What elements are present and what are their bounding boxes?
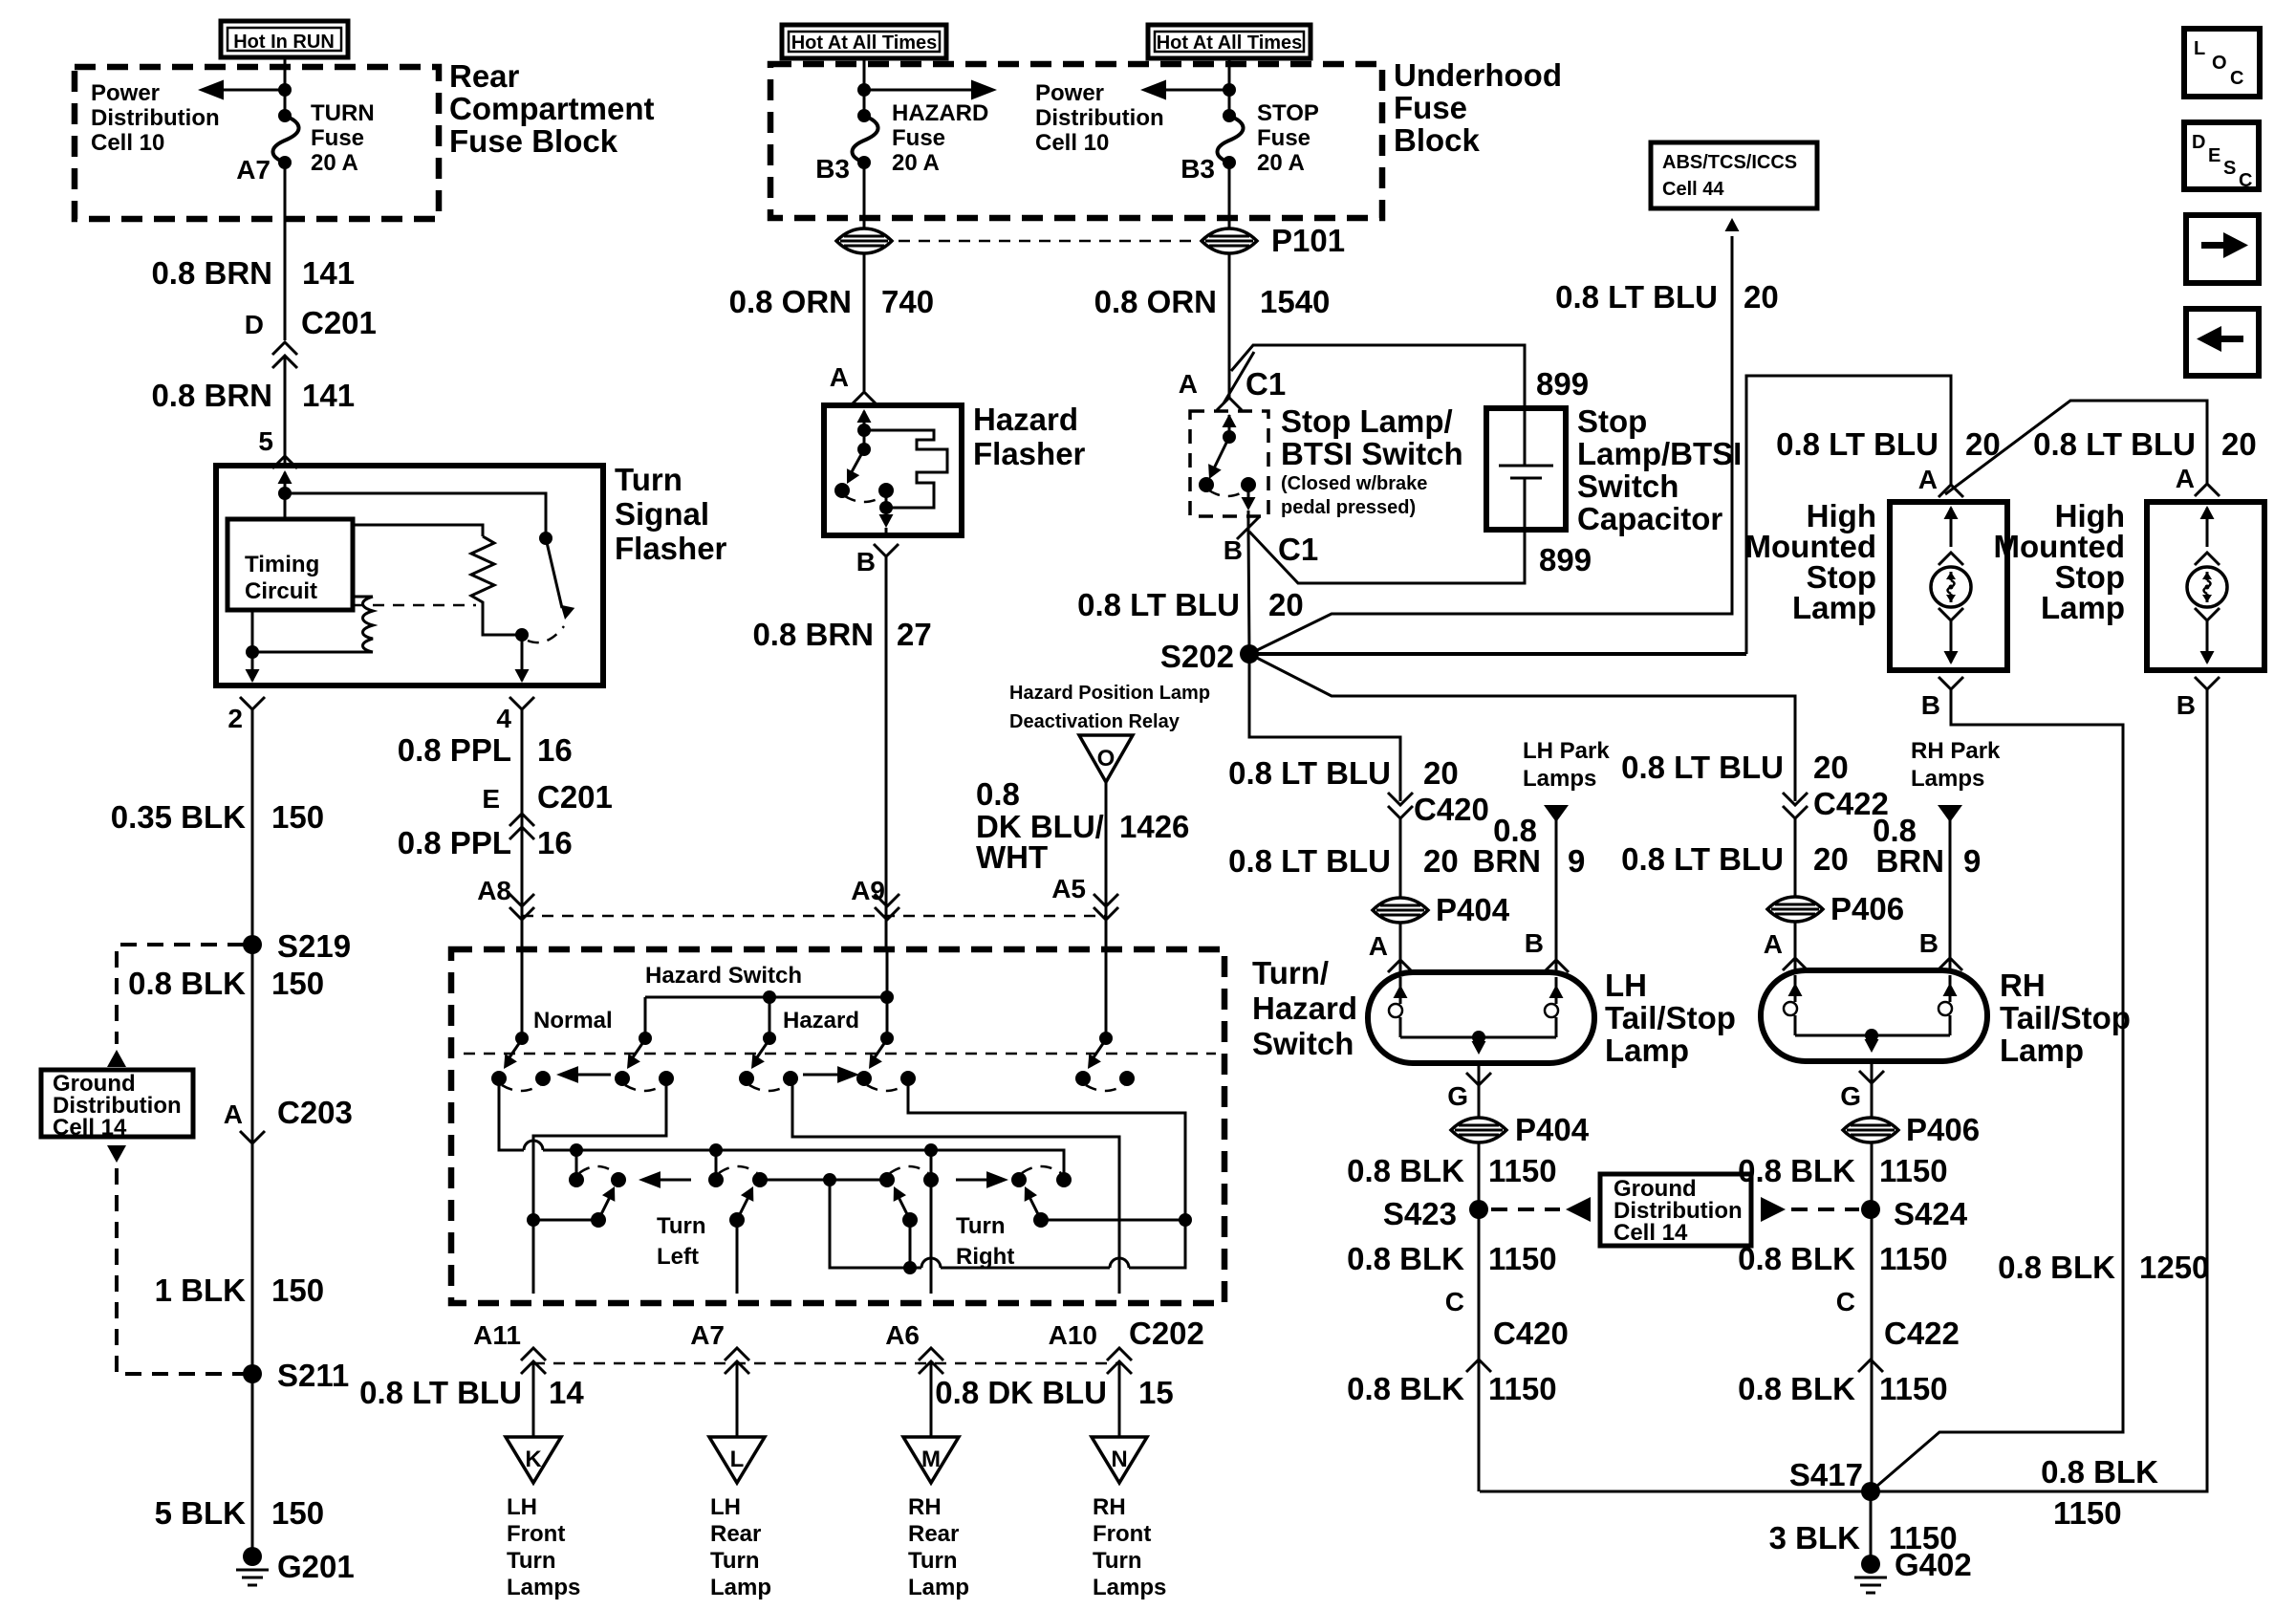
svg-text:0.8 LT BLU: 0.8 LT BLU [1776, 426, 1939, 462]
svg-text:S: S [2223, 158, 2236, 179]
svg-text:K: K [525, 1447, 542, 1472]
svg-text:L: L [2194, 38, 2205, 59]
svg-text:Distribution: Distribution [91, 105, 220, 131]
svg-text:Stop Lamp/: Stop Lamp/ [1281, 403, 1453, 439]
svg-text:0.8 BRN: 0.8 BRN [752, 617, 874, 652]
svg-text:150: 150 [271, 1273, 324, 1308]
svg-text:S417: S417 [1789, 1457, 1863, 1492]
svg-text:0.8 BLK: 0.8 BLK [128, 966, 246, 1001]
svg-text:Hot At All Times: Hot At All Times [1157, 33, 1303, 54]
svg-text:Cell 14: Cell 14 [53, 1115, 127, 1141]
svg-text:4: 4 [496, 704, 511, 733]
svg-text:20 A: 20 A [892, 150, 940, 176]
svg-text:Lamps: Lamps [1911, 766, 1984, 792]
svg-text:1 BLK: 1 BLK [155, 1273, 247, 1308]
svg-text:RH: RH [2000, 968, 2046, 1003]
svg-text:0.8 LT BLU: 0.8 LT BLU [2033, 426, 2196, 462]
svg-text:2: 2 [227, 704, 243, 733]
svg-text:RH Park: RH Park [1911, 738, 2001, 764]
svg-text:P406: P406 [1830, 891, 1904, 926]
svg-text:E: E [2208, 145, 2220, 166]
svg-text:HAZARD: HAZARD [892, 100, 988, 126]
svg-text:1150: 1150 [2053, 1495, 2122, 1531]
svg-text:150: 150 [271, 1495, 324, 1531]
svg-text:Distribution: Distribution [1035, 105, 1164, 131]
svg-text:Lamp: Lamp [1792, 590, 1876, 625]
svg-text:0.8 BLK: 0.8 BLK [1998, 1250, 2115, 1285]
svg-text:Deactivation Relay: Deactivation Relay [1009, 711, 1180, 732]
svg-text:M: M [921, 1447, 941, 1472]
svg-text:S219: S219 [277, 928, 351, 964]
svg-text:BTSI Switch: BTSI Switch [1281, 436, 1463, 471]
svg-text:C1: C1 [1245, 366, 1286, 402]
svg-text:Turn: Turn [956, 1213, 1006, 1239]
svg-text:1150: 1150 [1488, 1371, 1557, 1406]
svg-text:1540: 1540 [1260, 284, 1330, 319]
svg-text:150: 150 [271, 966, 324, 1001]
svg-text:S423: S423 [1383, 1196, 1457, 1231]
svg-text:Cell 44: Cell 44 [1662, 179, 1724, 200]
svg-text:20: 20 [1813, 841, 1849, 877]
svg-text:Fuse Block: Fuse Block [449, 123, 618, 159]
svg-text:1150: 1150 [1879, 1153, 1948, 1188]
svg-text:B: B [1224, 535, 1243, 565]
svg-text:Lamp: Lamp [1605, 1033, 1689, 1068]
svg-text:9: 9 [1963, 843, 1981, 879]
svg-text:1150: 1150 [1488, 1153, 1557, 1188]
svg-text:0.35 BLK: 0.35 BLK [111, 799, 246, 835]
svg-text:Lamp: Lamp [2041, 590, 2125, 625]
svg-text:0.8 LT BLU: 0.8 LT BLU [1077, 587, 1240, 622]
svg-text:A: A [224, 1099, 243, 1129]
svg-text:S202: S202 [1160, 639, 1234, 674]
svg-text:D: D [2192, 132, 2205, 153]
svg-text:Lamps: Lamps [507, 1575, 580, 1600]
svg-text:0.8 BLK: 0.8 BLK [1738, 1153, 1855, 1188]
svg-text:20 A: 20 A [1257, 150, 1305, 176]
svg-text:Left: Left [657, 1244, 699, 1270]
svg-text:9: 9 [1568, 843, 1585, 879]
svg-text:Hazard: Hazard [973, 402, 1078, 437]
svg-text:O: O [1097, 746, 1116, 772]
svg-text:Compartment: Compartment [449, 91, 655, 126]
svg-text:C422: C422 [1884, 1316, 1960, 1351]
svg-text:0.8 BLK: 0.8 BLK [1347, 1153, 1464, 1188]
svg-text:Lamp/BTSI: Lamp/BTSI [1577, 436, 1742, 471]
svg-text:(Closed w/brake: (Closed w/brake [1281, 473, 1427, 494]
svg-text:Turn: Turn [908, 1548, 958, 1574]
svg-text:C: C [2239, 170, 2252, 191]
svg-text:Underhood: Underhood [1394, 57, 1562, 93]
svg-text:N: N [1111, 1447, 1127, 1472]
svg-text:0.8 PPL: 0.8 PPL [398, 825, 511, 860]
svg-text:A5: A5 [1051, 874, 1086, 903]
svg-text:Capacitor: Capacitor [1577, 501, 1722, 536]
svg-text:141: 141 [302, 378, 355, 413]
svg-text:Lamp: Lamp [710, 1575, 771, 1600]
svg-text:Block: Block [1394, 122, 1481, 158]
svg-text:0.8 LT BLU: 0.8 LT BLU [1555, 279, 1718, 315]
svg-text:A7: A7 [690, 1320, 725, 1350]
svg-text:20: 20 [2221, 426, 2257, 462]
svg-text:1150: 1150 [1879, 1241, 1948, 1276]
svg-text:740: 740 [881, 284, 934, 319]
svg-text:Fuse: Fuse [1394, 90, 1467, 125]
svg-text:20: 20 [1423, 755, 1459, 791]
svg-text:L: L [730, 1447, 745, 1472]
svg-text:20: 20 [1813, 750, 1849, 785]
svg-text:LH: LH [507, 1494, 537, 1520]
svg-text:0.8 LT BLU: 0.8 LT BLU [1228, 755, 1391, 791]
svg-text:C201: C201 [537, 779, 613, 815]
svg-text:A: A [1918, 465, 1938, 494]
svg-text:Lamps: Lamps [1523, 766, 1596, 792]
svg-text:STOP: STOP [1257, 100, 1319, 126]
svg-text:B: B [856, 547, 876, 577]
svg-text:Hazard: Hazard [783, 1008, 859, 1033]
svg-text:150: 150 [271, 799, 324, 835]
svg-text:Switch: Switch [1577, 468, 1679, 504]
svg-text:5 BLK: 5 BLK [155, 1495, 247, 1531]
svg-text:1250: 1250 [2139, 1250, 2209, 1285]
svg-text:Front: Front [507, 1521, 565, 1547]
svg-text:3 BLK: 3 BLK [1769, 1520, 1861, 1556]
svg-text:WHT: WHT [976, 839, 1048, 875]
svg-text:LH: LH [710, 1494, 741, 1520]
svg-text:899: 899 [1539, 542, 1592, 577]
svg-text:E: E [482, 784, 500, 814]
svg-text:0.8 PPL: 0.8 PPL [398, 732, 511, 768]
svg-text:20: 20 [1965, 426, 2001, 462]
svg-text:Hazard Position Lamp: Hazard Position Lamp [1009, 683, 1210, 704]
svg-text:Cell 10: Cell 10 [1035, 130, 1109, 156]
svg-text:C: C [2230, 68, 2243, 89]
svg-text:Cell 10: Cell 10 [91, 130, 164, 156]
svg-text:14: 14 [549, 1375, 584, 1410]
svg-text:Hot In RUN: Hot In RUN [233, 32, 335, 53]
svg-text:Turn: Turn [507, 1548, 556, 1574]
svg-text:0.8 LT BLU: 0.8 LT BLU [1228, 843, 1391, 879]
svg-text:Right: Right [956, 1244, 1014, 1270]
svg-text:899: 899 [1536, 366, 1589, 402]
svg-text:Normal: Normal [533, 1008, 613, 1033]
svg-text:141: 141 [302, 255, 355, 291]
svg-text:1150: 1150 [1488, 1241, 1557, 1276]
svg-text:Rear: Rear [449, 58, 520, 94]
svg-text:5: 5 [258, 426, 273, 456]
svg-text:Lamps: Lamps [1093, 1575, 1166, 1600]
svg-text:16: 16 [537, 732, 573, 768]
svg-text:LH: LH [1605, 968, 1647, 1003]
svg-text:G402: G402 [1895, 1547, 1972, 1582]
svg-text:Flasher: Flasher [973, 436, 1086, 471]
svg-text:Lamp: Lamp [908, 1575, 969, 1600]
svg-text:G201: G201 [277, 1549, 355, 1584]
svg-text:Switch: Switch [1252, 1026, 1354, 1061]
svg-text:Turn: Turn [615, 462, 682, 497]
svg-text:Timing: Timing [245, 552, 319, 577]
svg-text:TURN: TURN [311, 100, 375, 126]
svg-text:0.8: 0.8 [976, 776, 1020, 812]
svg-text:Hazard: Hazard [1252, 990, 1357, 1026]
svg-text:Turn/: Turn/ [1252, 955, 1329, 990]
svg-text:B3: B3 [815, 154, 850, 184]
svg-text:A8: A8 [477, 876, 511, 905]
svg-text:20: 20 [1268, 587, 1304, 622]
svg-text:Rear: Rear [710, 1521, 761, 1547]
svg-text:Circuit: Circuit [245, 578, 317, 604]
svg-text:A7: A7 [236, 155, 271, 185]
svg-text:Tail/Stop: Tail/Stop [2000, 1000, 2131, 1035]
svg-text:Front: Front [1093, 1521, 1151, 1547]
svg-text:S424: S424 [1894, 1196, 1968, 1231]
svg-text:BRN: BRN [1473, 843, 1542, 879]
svg-text:pedal pressed): pedal pressed) [1281, 497, 1416, 518]
svg-text:B: B [2177, 690, 2196, 720]
svg-text:A10: A10 [1049, 1320, 1097, 1350]
svg-text:B3: B3 [1180, 154, 1215, 184]
svg-text:20 A: 20 A [311, 150, 358, 176]
svg-text:0.8 ORN: 0.8 ORN [729, 284, 852, 319]
svg-text:P101: P101 [1271, 223, 1345, 258]
svg-text:P404: P404 [1436, 892, 1510, 927]
svg-text:Fuse: Fuse [1257, 125, 1310, 151]
svg-text:Hot At All Times: Hot At All Times [791, 33, 938, 54]
svg-text:Fuse: Fuse [311, 125, 364, 151]
svg-text:A: A [830, 362, 849, 392]
svg-text:0.8 BRN: 0.8 BRN [151, 378, 272, 413]
svg-text:A: A [1764, 929, 1783, 959]
svg-text:A9: A9 [851, 876, 885, 905]
svg-text:ABS/TCS/ICCS: ABS/TCS/ICCS [1662, 152, 1797, 173]
svg-text:B: B [1921, 690, 1940, 720]
svg-text:P404: P404 [1515, 1112, 1590, 1147]
svg-text:16: 16 [537, 825, 573, 860]
svg-text:D: D [245, 310, 264, 339]
svg-text:Turn: Turn [657, 1213, 706, 1239]
svg-text:Turn: Turn [710, 1548, 760, 1574]
svg-text:LH Park: LH Park [1523, 738, 1610, 764]
svg-text:Hazard Switch: Hazard Switch [645, 963, 802, 989]
svg-text:0.8 BRN: 0.8 BRN [151, 255, 272, 291]
svg-text:1150: 1150 [1879, 1371, 1948, 1406]
svg-text:C202: C202 [1129, 1316, 1204, 1351]
svg-text:Power: Power [91, 80, 160, 106]
svg-text:G: G [1447, 1081, 1468, 1111]
svg-text:Turn: Turn [1093, 1548, 1142, 1574]
svg-text:Lamp: Lamp [2000, 1033, 2084, 1068]
svg-text:B: B [1525, 928, 1544, 958]
svg-text:RH: RH [1093, 1494, 1126, 1520]
svg-text:O: O [2212, 53, 2227, 74]
svg-text:A11: A11 [473, 1320, 521, 1350]
svg-text:0.8 DK BLU: 0.8 DK BLU [935, 1375, 1107, 1410]
svg-text:0.8 LT BLU: 0.8 LT BLU [1621, 750, 1784, 785]
svg-text:0.8 ORN: 0.8 ORN [1094, 284, 1217, 319]
svg-text:A6: A6 [885, 1320, 920, 1350]
svg-text:P406: P406 [1906, 1112, 1980, 1147]
svg-text:C1: C1 [1278, 532, 1318, 567]
svg-text:20: 20 [1423, 843, 1459, 879]
svg-text:S211: S211 [277, 1358, 349, 1393]
svg-text:C201: C201 [301, 305, 377, 340]
svg-text:27: 27 [897, 617, 932, 652]
svg-text:Signal: Signal [615, 496, 709, 532]
svg-text:C: C [1445, 1287, 1464, 1316]
svg-text:Stop: Stop [1577, 403, 1647, 439]
svg-text:0.8 LT BLU: 0.8 LT BLU [1621, 841, 1784, 877]
svg-text:Cell 14: Cell 14 [1614, 1220, 1688, 1246]
svg-text:Flasher: Flasher [615, 531, 727, 566]
svg-text:0.8 BLK: 0.8 BLK [1738, 1371, 1855, 1406]
svg-text:C203: C203 [277, 1095, 353, 1130]
svg-text:0.8 BLK: 0.8 BLK [2041, 1454, 2158, 1490]
svg-text:0.8 BLK: 0.8 BLK [1347, 1371, 1464, 1406]
svg-text:B: B [1919, 928, 1939, 958]
svg-text:C: C [1836, 1287, 1855, 1316]
svg-text:BRN: BRN [1876, 843, 1945, 879]
svg-text:Power: Power [1035, 80, 1104, 106]
svg-text:Tail/Stop: Tail/Stop [1605, 1000, 1736, 1035]
svg-text:1426: 1426 [1119, 809, 1189, 844]
svg-text:0.8 BLK: 0.8 BLK [1347, 1241, 1464, 1276]
svg-text:A: A [1179, 369, 1198, 399]
svg-text:Fuse: Fuse [892, 125, 945, 151]
svg-text:C420: C420 [1414, 792, 1489, 827]
svg-text:A: A [2176, 464, 2195, 493]
svg-text:G: G [1840, 1081, 1861, 1111]
svg-text:0.8 BLK: 0.8 BLK [1738, 1241, 1855, 1276]
svg-text:Rear: Rear [908, 1521, 959, 1547]
svg-text:RH: RH [908, 1494, 942, 1520]
svg-text:20: 20 [1744, 279, 1779, 315]
svg-text:15: 15 [1138, 1375, 1174, 1410]
svg-text:C420: C420 [1493, 1316, 1569, 1351]
svg-text:0.8 LT BLU: 0.8 LT BLU [359, 1375, 522, 1410]
svg-text:A: A [1369, 931, 1388, 961]
